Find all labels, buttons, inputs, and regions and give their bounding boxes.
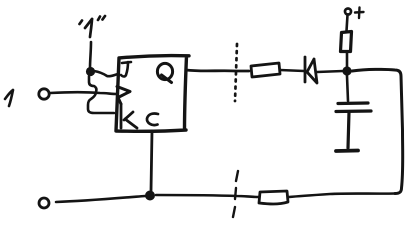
junction node (top right) [342,66,351,75]
junction node (bottom rail) [145,191,155,201]
resistor R (top) [251,63,280,77]
wire bottom right to resistor R3 [289,194,395,198]
pin label c [147,114,158,126]
wire Q output to resistor [186,70,249,71]
pin label J [121,62,131,77]
boundary dotted line (top) [235,44,237,101]
wire diode to node [317,71,343,72]
wire resistor to diode [280,70,304,71]
JK flip-flop U1 box [116,56,189,132]
wire flip-flop C pin down to bottom rail [151,131,152,191]
wire terminal to clock input [50,92,117,94]
bottom terminal [39,198,49,208]
wire from "1" label down to J/K node [90,42,91,68]
wire node up to resistor R2 [346,53,349,67]
wire node right and down right side [352,69,403,193]
boundary dashed line (bottom) [233,171,238,217]
input terminal (left) [39,89,49,99]
wire R2 to + terminal [347,15,348,31]
diode D (cathode bar left, triangle opens right) [305,57,317,83]
capacitor C [336,103,371,151]
pin label K [121,104,137,128]
label "1" at input terminal [5,90,13,106]
output label Q [157,63,172,82]
wire node down to capacitor [347,76,348,101]
clock edge triangle [117,87,130,105]
wire node to K input (hops over clock wire) [88,76,114,113]
junction node J/K [86,67,95,76]
label "1" (top constant, with quote marks) [80,16,106,37]
+ supply terminal [345,9,351,15]
resistor R3 (bottom) [259,191,288,204]
wire bottom rail to terminal [56,196,145,202]
wire node to J input [94,71,118,76]
wire R3 to bottom rail [156,195,259,197]
resistor R2 (vertical, to supply) [341,32,352,52]
label + [355,8,364,19]
